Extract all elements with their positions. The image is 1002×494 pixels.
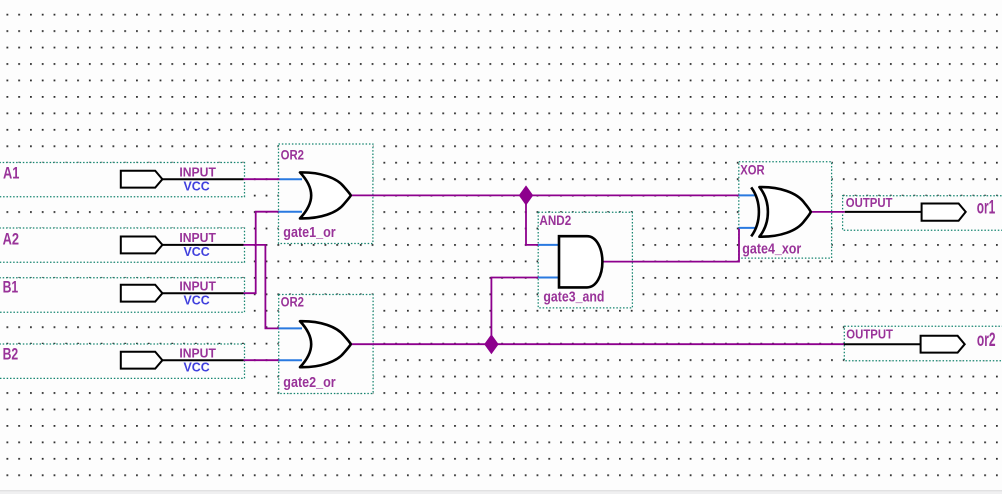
wire gate1 output to xor input1 (351, 194, 756, 196)
svg-text:VCC: VCC (184, 179, 211, 194)
svg-text:or2: or2 (977, 330, 996, 351)
or-gate gate2_or symbol (300, 321, 351, 367)
svg-text:VCC: VCC (184, 244, 211, 259)
or-gate gate1_or selection box (279, 144, 373, 244)
svg-text:A2: A2 (3, 230, 19, 248)
xor-gate gate4_xor selection box (739, 162, 832, 258)
wire junction J2 up to gate3 input2 (491, 278, 560, 345)
svg-text:VCC: VCC (184, 293, 211, 308)
output pin or2 label (977, 330, 996, 351)
or-gate gate2_or label OR2 (281, 295, 304, 310)
wire junction J1 down to gate3 input1 (526, 195, 560, 245)
node B2 selection box (0, 344, 245, 378)
node A2 label (3, 230, 19, 248)
wire B2 to gate2 input2 (244, 359, 303, 361)
input pin A2 (121, 230, 244, 259)
svg-text:gate1_or: gate1_or (283, 225, 336, 241)
svg-text:gate4_xor: gate4_xor (742, 241, 801, 257)
output pin or2 (844, 328, 965, 353)
output pin or2 selection box (844, 326, 1002, 360)
svg-text:gate3_and: gate3_and (543, 289, 604, 305)
input pin A1 (121, 164, 244, 193)
svg-text:INPUT: INPUT (179, 164, 216, 179)
svg-text:AND2: AND2 (539, 213, 571, 228)
or-gate gate2_or name label (283, 375, 336, 391)
wire gate3 output to xor input2 (602, 228, 756, 262)
or-gate gate1_or symbol (300, 172, 351, 218)
svg-text:INPUT: INPUT (179, 278, 216, 293)
output pin or1 selection box (843, 196, 1002, 230)
node A1 selection box (0, 163, 245, 197)
svg-text:OUTPUT: OUTPUT (846, 328, 893, 342)
node B1 label (3, 279, 19, 297)
output pin or1 label (977, 198, 996, 219)
svg-text:B1: B1 (3, 279, 19, 297)
xor-gate gate4_xor label XOR (740, 163, 765, 178)
xor-gate gate4_xor name label (742, 241, 801, 257)
and-gate gate3_and name label (543, 289, 604, 305)
svg-text:or1: or1 (977, 198, 996, 219)
wire B1 to gate1 input2 (244, 212, 303, 294)
svg-text:A1: A1 (3, 165, 19, 183)
svg-text:VCC: VCC (184, 360, 211, 375)
node B2 label (3, 346, 19, 364)
or-gate gate1_or label OR2 (281, 148, 304, 163)
input pin B2 (121, 345, 244, 374)
junction node J2 (485, 335, 498, 353)
wire A2 to gate2 input1 (244, 245, 303, 329)
svg-text:INPUT: INPUT (179, 230, 216, 245)
or-gate gate2_or selection box (279, 295, 373, 394)
and-gate gate3_and selection box (538, 212, 632, 308)
xor-gate gate4_xor symbol (751, 187, 811, 237)
junction node J1 (519, 186, 532, 204)
and-gate gate3_and symbol (559, 236, 602, 287)
wire A1 to gate1 input1 (244, 178, 303, 180)
node A2 selection box (0, 228, 245, 262)
input pin B1 (121, 278, 244, 307)
output pin or1 (845, 196, 966, 221)
node B1 selection box (0, 278, 245, 313)
svg-text:OR2: OR2 (281, 295, 304, 310)
node A1 label (3, 165, 19, 183)
svg-text:OUTPUT: OUTPUT (846, 196, 893, 210)
svg-text:gate2_or: gate2_or (283, 375, 336, 391)
or-gate gate1_or name label (283, 225, 336, 241)
scrollbar (0, 491, 1002, 494)
svg-text:XOR: XOR (740, 163, 765, 178)
svg-text:OR2: OR2 (281, 148, 304, 163)
wire xor output to output pin or1 (810, 211, 845, 213)
svg-text:INPUT: INPUT (179, 345, 216, 360)
wire gate2 output to output pin or2 (351, 343, 844, 345)
and-gate gate3_and label AND2 (539, 213, 571, 228)
svg-text:B2: B2 (3, 346, 19, 364)
